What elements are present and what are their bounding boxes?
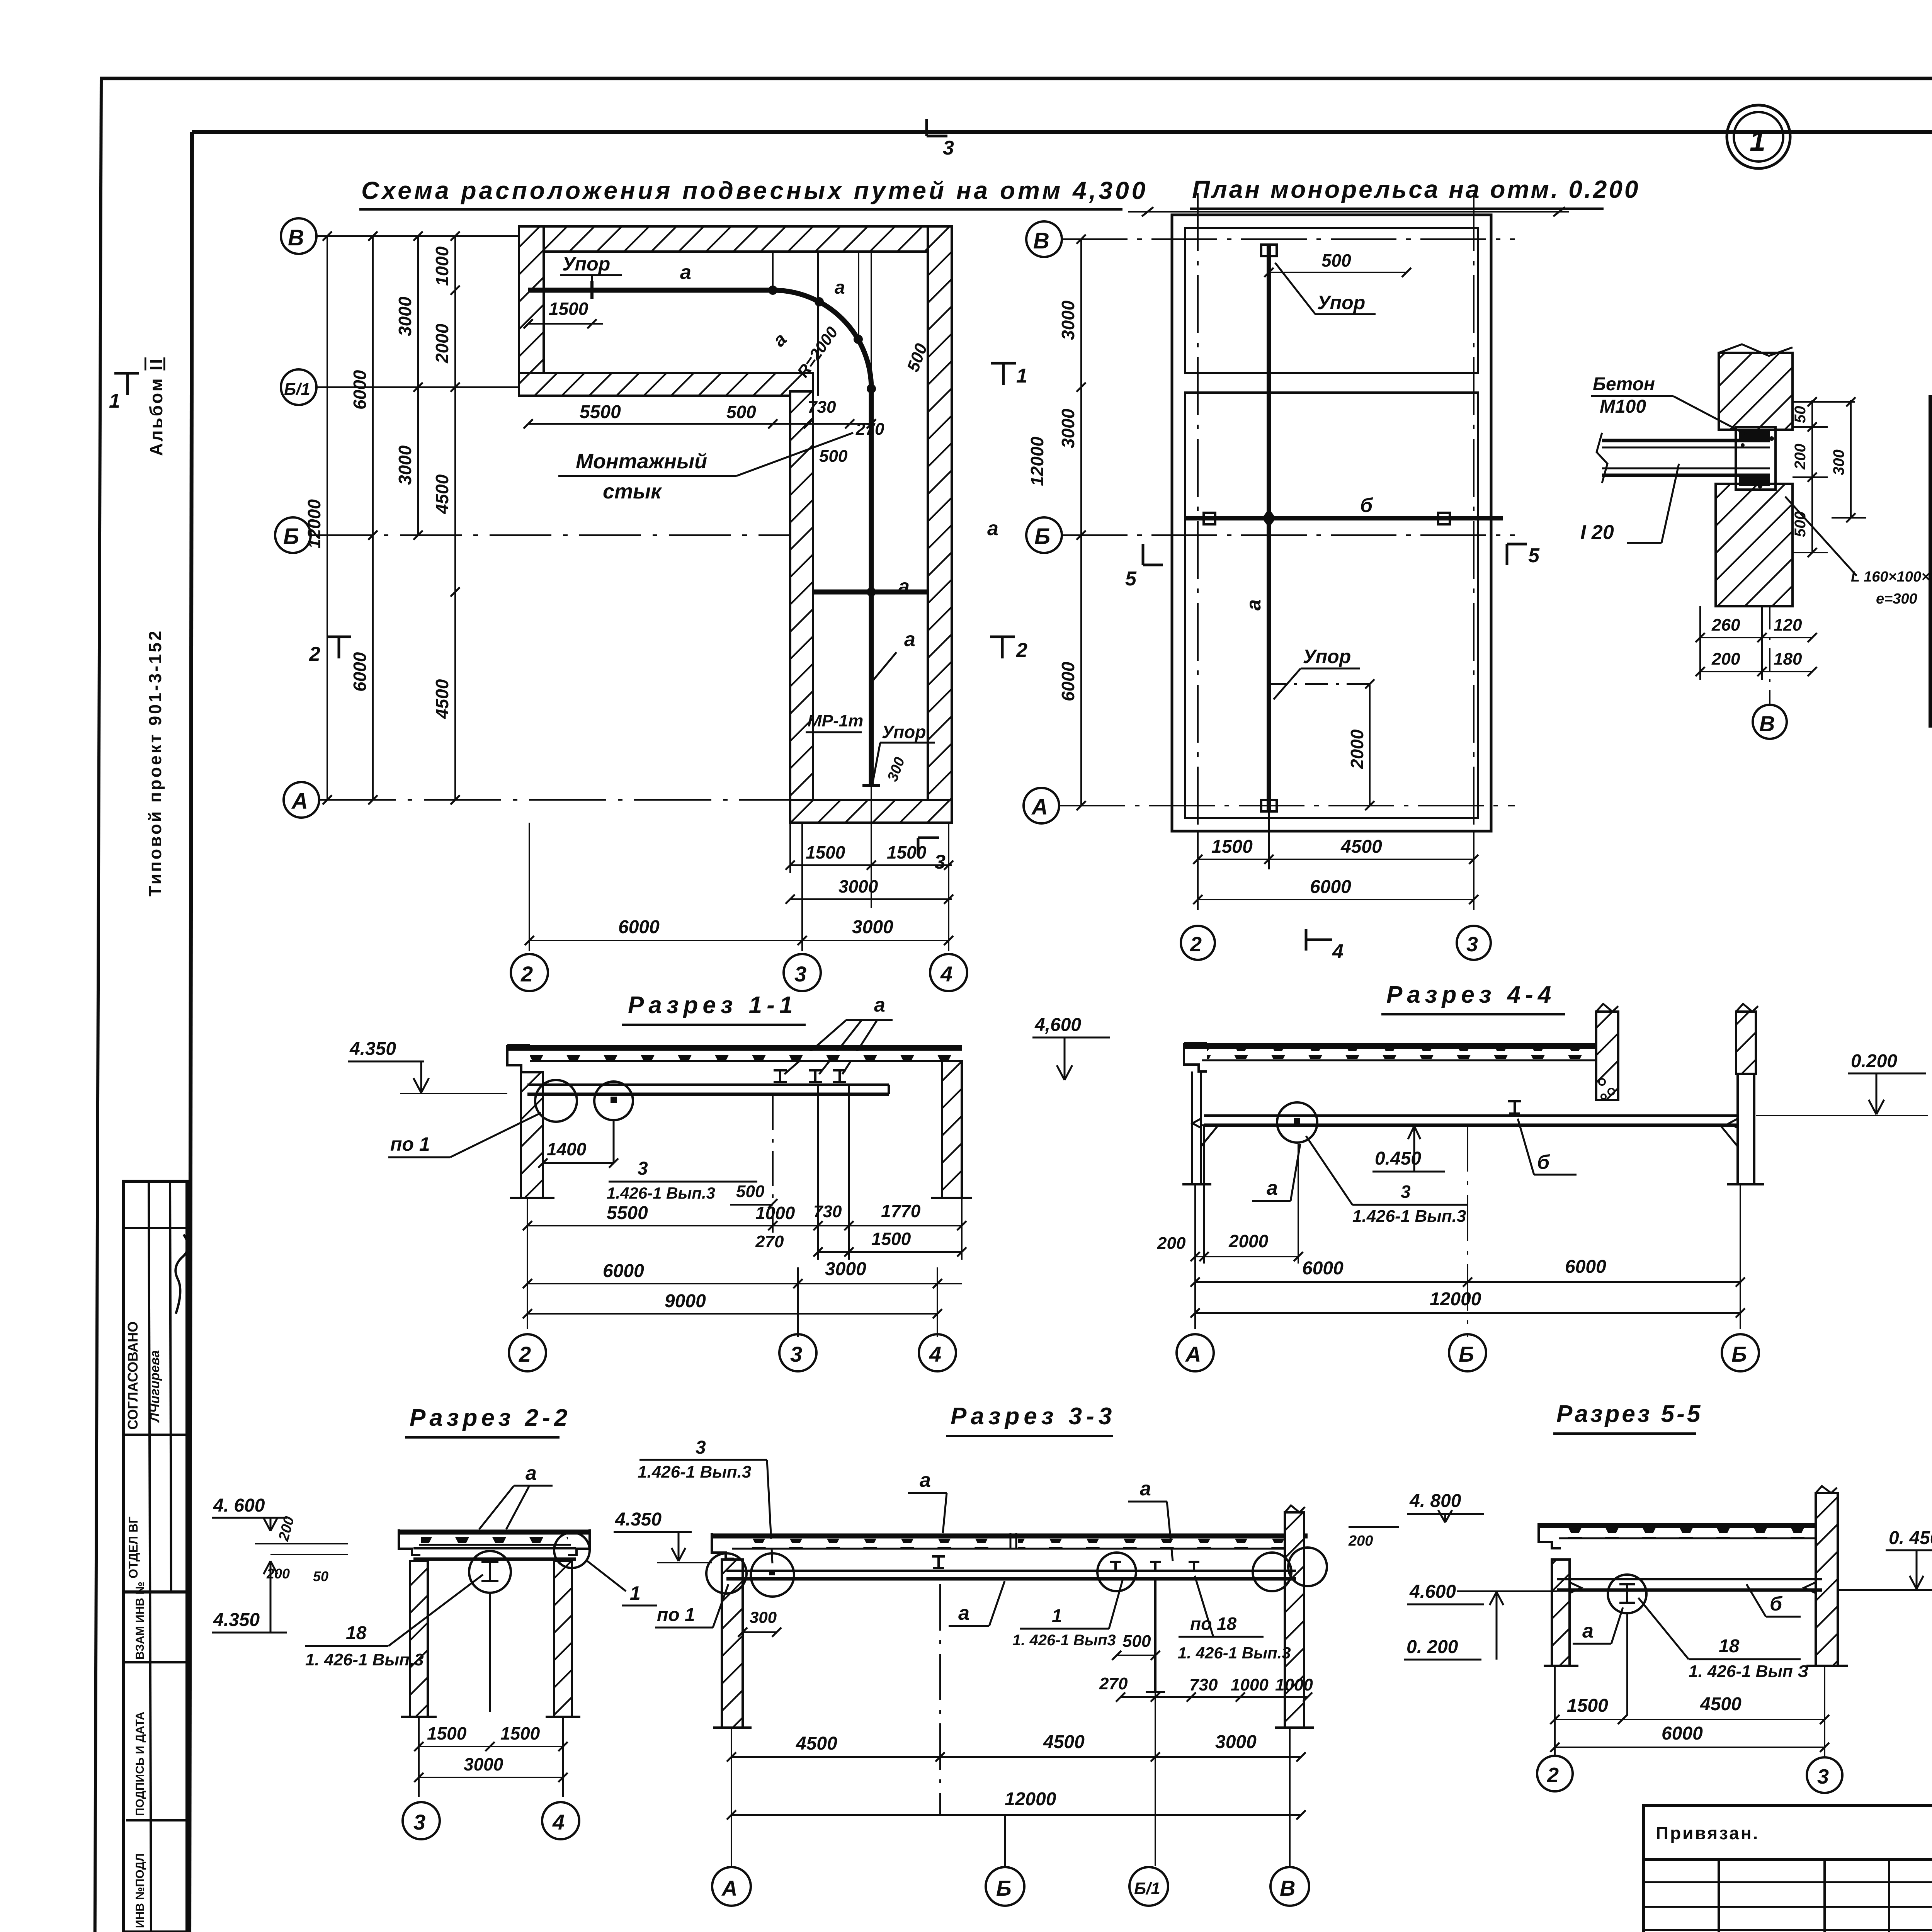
axis vert 3 dashdot xyxy=(1473,193,1475,875)
section mark 2 left xyxy=(327,637,351,658)
svg-text:а: а xyxy=(874,994,885,1016)
svg-text:12000: 12000 xyxy=(1430,1289,1481,1310)
left cap xyxy=(399,1529,420,1555)
axis circle A xyxy=(1024,788,1059,823)
svg-text:4500: 4500 xyxy=(796,1733,837,1754)
dim row below B1 wall xyxy=(528,423,871,425)
svg-text:А: А xyxy=(291,789,308,814)
drawing field border top xyxy=(192,130,1932,134)
left column xyxy=(410,1561,428,1717)
SECTION: plan monorail 0200 xyxy=(1024,175,1640,963)
dim 1500 4500 xyxy=(1555,1719,1825,1720)
svg-text:730: 730 xyxy=(813,1202,842,1221)
section mark 1 left xyxy=(114,373,139,395)
svg-text:730: 730 xyxy=(808,398,836,417)
svg-text:а: а xyxy=(1243,599,1265,611)
svg-text:4500: 4500 xyxy=(432,474,452,514)
dims right v1 xyxy=(1811,400,1813,553)
dim row 270 730 1000 1000 xyxy=(1121,1696,1308,1698)
axis line V xyxy=(316,235,952,237)
SECTION: section 4-4 xyxy=(1032,981,1928,1371)
header band bottom xyxy=(1930,539,1932,543)
svg-text:5: 5 xyxy=(1125,568,1137,590)
svg-text:Упор: Упор xyxy=(562,253,610,275)
svg-text:1.426-1 Вып.3: 1.426-1 Вып.3 xyxy=(607,1184,715,1202)
svg-text:1500: 1500 xyxy=(887,842,927,862)
dim 500 top xyxy=(1269,272,1406,273)
dim row 6000 xyxy=(1198,899,1474,900)
svg-text:Разрез 5-5: Разрез 5-5 xyxy=(1556,1401,1702,1427)
svg-text:12000: 12000 xyxy=(1005,1789,1056,1810)
wall bottom upper room xyxy=(519,373,813,396)
svg-text:270: 270 xyxy=(1099,1674,1128,1693)
svg-text:6000: 6000 xyxy=(1058,662,1078,701)
svg-text:4. 600: 4. 600 xyxy=(213,1495,265,1516)
side stamp inner vertical 2 xyxy=(170,1181,171,1592)
roof slab xyxy=(507,1045,962,1051)
svg-text:3000: 3000 xyxy=(852,917,893,937)
svg-text:а: а xyxy=(987,517,998,540)
svg-text:3: 3 xyxy=(1401,1182,1411,1202)
roof slab xyxy=(1184,1043,1599,1049)
svg-text:6000: 6000 xyxy=(1302,1258,1344,1279)
extension line x2222 xyxy=(858,252,859,342)
svg-text:МР-1т: МР-1т xyxy=(808,711,863,730)
roof slab xyxy=(399,1530,590,1535)
beam xyxy=(413,1547,576,1549)
svg-text:Б: Б xyxy=(1459,1342,1474,1366)
wall outer rect xyxy=(1172,215,1491,831)
wall break line top xyxy=(1719,344,1793,356)
svg-text:стык: стык xyxy=(603,480,662,503)
svg-text:б: б xyxy=(1537,1151,1550,1173)
ext lines xyxy=(527,1198,528,1329)
privyazan box xyxy=(1644,1806,1932,1859)
svg-text:Б: Б xyxy=(996,1876,1012,1900)
svg-text:4.350: 4.350 xyxy=(615,1509,662,1530)
svg-text:3: 3 xyxy=(943,137,954,159)
dim row4 9000 xyxy=(527,1313,937,1315)
SECTION: left margin xyxy=(124,357,188,1932)
dim row 1500 1500 xyxy=(790,864,952,866)
svg-text:Упор: Упор xyxy=(1317,292,1365,313)
svg-text:120: 120 xyxy=(1774,616,1802,634)
axis circle 2p xyxy=(1181,926,1215,960)
svg-text:1: 1 xyxy=(1016,365,1027,387)
dim row 200 2000 xyxy=(1195,1256,1298,1257)
svg-text:3: 3 xyxy=(638,1158,648,1179)
SECTION: section 2-2 xyxy=(212,1405,657,1839)
svg-text:300: 300 xyxy=(750,1608,777,1626)
bottom dim row1 xyxy=(1700,637,1812,638)
svg-text:4500: 4500 xyxy=(1340,837,1382,857)
svg-text:Б/1: Б/1 xyxy=(1134,1879,1160,1898)
axis circle B right xyxy=(1722,1334,1759,1371)
svg-text:3000: 3000 xyxy=(1058,408,1078,448)
left corbel xyxy=(1201,1125,1218,1146)
svg-text:2000: 2000 xyxy=(432,323,452,364)
svg-text:270: 270 xyxy=(755,1232,784,1251)
section mark 3 bottom xyxy=(918,838,939,855)
rail stop upor top xyxy=(590,281,594,299)
svg-text:5500: 5500 xyxy=(607,1203,648,1223)
axis line B1 xyxy=(316,386,522,388)
section mark 1 right xyxy=(991,363,1016,385)
svg-text:12000: 12000 xyxy=(304,499,324,549)
right cap xyxy=(568,1529,590,1555)
svg-text:4500: 4500 xyxy=(1700,1694,1742,1714)
svg-text:4: 4 xyxy=(940,962,952,986)
right wall xyxy=(1285,1512,1304,1728)
roof slab xyxy=(1539,1523,1825,1528)
beam xyxy=(726,1570,1296,1572)
wall upper part xyxy=(1719,353,1793,430)
svg-text:6000: 6000 xyxy=(350,652,370,692)
svg-text:1.426-1 Вып.3: 1.426-1 Вып.3 xyxy=(638,1463,751,1481)
dim chain vertical x1082 xyxy=(417,236,419,535)
chain ticks xyxy=(323,231,460,804)
svg-text:4. 800: 4. 800 xyxy=(1409,1491,1461,1511)
beam break mark xyxy=(1597,433,1607,483)
svg-text:План монорельса на отм. 0.2: План монорельса на отм. 0.200 xyxy=(1192,175,1640,203)
svg-text:4.350: 4.350 xyxy=(213,1610,260,1630)
svg-text:1500: 1500 xyxy=(871,1229,911,1249)
svg-text:Альбом II: Альбом II xyxy=(146,357,166,456)
top dim line break xyxy=(1128,211,1569,213)
axis vert 2 dashdot xyxy=(1197,193,1199,875)
SECTION: vedomost table xyxy=(1930,397,1932,726)
axis circle 4 xyxy=(542,1802,579,1839)
left cornice xyxy=(712,1533,734,1559)
upor bracket bottom xyxy=(1261,800,1277,811)
SECTION: plan scheme 4300 xyxy=(109,119,1148,991)
svg-text:3: 3 xyxy=(794,962,806,986)
left column xyxy=(521,1072,543,1198)
svg-text:6000: 6000 xyxy=(603,1261,644,1281)
svg-text:500: 500 xyxy=(736,1182,765,1201)
svg-text:1500: 1500 xyxy=(549,299,588,319)
svg-text:1. 426-1 Вып.3: 1. 426-1 Вып.3 xyxy=(305,1650,424,1669)
beam I20 top flange xyxy=(1602,439,1770,442)
svg-text:18: 18 xyxy=(346,1623,367,1643)
dim row1 5500 1000 730 1770 xyxy=(527,1225,962,1226)
svg-text:2000: 2000 xyxy=(1228,1231,1269,1251)
right wall xyxy=(1816,1493,1838,1666)
extension line x2255 xyxy=(871,252,872,389)
axis circle 2 xyxy=(511,954,548,991)
svg-text:6000: 6000 xyxy=(1662,1723,1703,1744)
svg-text:ПОДПИСЬ И ДАТА: ПОДПИСЬ И ДАТА xyxy=(134,1712,146,1816)
svg-text:3: 3 xyxy=(413,1810,425,1834)
svg-text:1.426-1 Вып.3: 1.426-1 Вып.3 xyxy=(1352,1207,1466,1226)
svg-text:4: 4 xyxy=(929,1342,941,1366)
svg-text:270: 270 xyxy=(855,420,884,439)
svg-text:3000: 3000 xyxy=(395,445,415,485)
svg-text:3: 3 xyxy=(790,1342,802,1366)
svg-text:1500: 1500 xyxy=(427,1723,467,1743)
svg-text:500: 500 xyxy=(1122,1632,1151,1651)
page outer border top xyxy=(100,77,1932,80)
dim 1500 1500 xyxy=(419,1746,563,1747)
section mark 5 right xyxy=(1507,544,1527,565)
suspended beam xyxy=(527,1083,889,1086)
right circle callout 1 xyxy=(554,1532,590,1568)
dim row3 6000 3000 xyxy=(527,1283,962,1284)
right column double xyxy=(1736,1074,1739,1184)
svg-text:2: 2 xyxy=(520,962,533,986)
SECTION: section 3-3 xyxy=(614,1403,1327,1906)
end plate right xyxy=(1438,513,1450,524)
svg-text:а: а xyxy=(898,575,910,598)
wall inner rect lower room xyxy=(1185,393,1478,818)
axis circle B1 xyxy=(281,369,316,405)
svg-text:4500: 4500 xyxy=(432,679,452,719)
svg-text:В: В xyxy=(1280,1876,1295,1900)
axis circle V xyxy=(1026,221,1062,257)
svg-text:е=300: е=300 xyxy=(1876,591,1917,607)
svg-text:ОТДЕЛ ВГ: ОТДЕЛ ВГ xyxy=(126,1517,140,1578)
svg-text:180: 180 xyxy=(1774,650,1802,668)
extension line x2000 xyxy=(772,252,774,290)
svg-text:Монтажный: Монтажный xyxy=(576,450,707,473)
svg-text:4: 4 xyxy=(552,1810,565,1834)
svg-text:1000: 1000 xyxy=(1231,1675,1269,1694)
svg-text:1. 426-1 Вып З: 1. 426-1 Вып З xyxy=(1689,1662,1808,1681)
ext lines xyxy=(1194,1184,1196,1329)
svg-text:12000: 12000 xyxy=(1027,437,1047,486)
svg-text:5500: 5500 xyxy=(580,402,621,422)
svg-text:730: 730 xyxy=(1189,1675,1218,1694)
wall lower part xyxy=(1716,484,1793,606)
axis circle 3 xyxy=(403,1802,440,1839)
svg-text:ИНВ №ПОДЛ: ИНВ №ПОДЛ xyxy=(134,1853,146,1928)
svg-text:1000: 1000 xyxy=(1275,1675,1313,1694)
svg-text:СОГЛАСОВАНО: СОГЛАСОВАНО xyxy=(125,1321,141,1430)
svg-text:6000: 6000 xyxy=(1565,1257,1606,1277)
svg-text:а: а xyxy=(1582,1620,1594,1642)
svg-text:L 160×100×10: L 160×100×10 xyxy=(1851,569,1932,585)
svg-text:2: 2 xyxy=(1016,639,1027,662)
upor bracket top xyxy=(1261,245,1277,256)
right corbel xyxy=(1720,1125,1738,1146)
svg-text:Привязан.: Привязан. xyxy=(1656,1823,1759,1843)
axis circle V detail xyxy=(1769,606,1770,704)
wall inner rect upper room xyxy=(1185,228,1478,373)
dim 2000 vert xyxy=(1369,684,1371,806)
svg-text:1: 1 xyxy=(630,1582,641,1604)
axis circle 3 xyxy=(779,1334,816,1371)
ext lines xyxy=(418,1717,420,1797)
axis circle V xyxy=(1270,1867,1309,1906)
monorail curve R2000 xyxy=(773,290,871,389)
side stamp row line podpis bottom xyxy=(126,1819,187,1821)
svg-text:2: 2 xyxy=(1547,1764,1559,1787)
privyazan grid xyxy=(1644,1859,1932,1932)
svg-text:4.350: 4.350 xyxy=(349,1039,396,1059)
svg-text:3: 3 xyxy=(1817,1765,1829,1788)
svg-text:4: 4 xyxy=(1332,940,1344,963)
ext verticals bottom xyxy=(731,1728,732,1866)
svg-text:а: а xyxy=(958,1602,969,1624)
svg-text:4500: 4500 xyxy=(1043,1732,1085,1752)
dim row 6000 6000 xyxy=(1195,1281,1740,1283)
axis horiz B xyxy=(1062,534,1515,536)
section mark 3 top xyxy=(927,119,947,136)
svg-text:200: 200 xyxy=(1157,1234,1186,1253)
svg-text:А: А xyxy=(721,1876,737,1900)
svg-text:а: а xyxy=(835,277,845,298)
left cornice xyxy=(507,1045,530,1072)
SECTION: title block xyxy=(1644,1692,1932,1932)
axis circle 3 xyxy=(784,954,821,991)
svg-text:а: а xyxy=(1140,1478,1151,1500)
anchor angle bottom xyxy=(1739,475,1770,486)
monorail b symbol on beam xyxy=(1508,1101,1521,1114)
extension line x2117 xyxy=(817,252,819,396)
monorail horizontal a xyxy=(528,288,773,293)
SECTION: section 1-1 xyxy=(348,992,972,1371)
table header underline xyxy=(1930,446,1932,449)
axis circle V xyxy=(281,218,316,254)
svg-text:по 1: по 1 xyxy=(390,1133,430,1155)
axis horiz A xyxy=(1060,805,1515,806)
svg-text:1000: 1000 xyxy=(432,246,452,286)
svg-text:3000: 3000 xyxy=(825,1259,866,1279)
grout pocket concrete M100 xyxy=(1736,427,1776,490)
monorail I at B xyxy=(932,1556,945,1568)
svg-text:0. 200: 0. 200 xyxy=(1406,1637,1458,1657)
svg-text:Разрез 3-3: Разрез 3-3 xyxy=(951,1403,1116,1430)
axis circle B xyxy=(275,517,311,553)
left column xyxy=(722,1560,743,1728)
svg-text:1770: 1770 xyxy=(881,1201,921,1221)
wall inner vertical xyxy=(790,391,813,823)
svg-text:3000: 3000 xyxy=(1215,1732,1257,1752)
detail circle I xyxy=(1608,1575,1646,1613)
svg-text:1: 1 xyxy=(1052,1606,1062,1626)
joint dot center xyxy=(1262,509,1276,528)
axis circle 3p xyxy=(1457,926,1491,960)
svg-text:А: А xyxy=(1185,1342,1201,1366)
svg-text:500: 500 xyxy=(1792,511,1809,537)
weld mark right xyxy=(1729,1119,1738,1128)
dim 6000 xyxy=(1555,1747,1825,1748)
svg-text:2: 2 xyxy=(309,643,320,665)
monorail row po18 xyxy=(1110,1562,1199,1571)
svg-text:а: а xyxy=(680,261,691,284)
axis line B xyxy=(310,534,790,536)
roof slab xyxy=(712,1534,1308,1539)
svg-text:500: 500 xyxy=(1321,250,1351,270)
wall bottom leg xyxy=(790,800,952,823)
joint dots xyxy=(768,286,876,597)
svg-text:Б: Б xyxy=(1731,1342,1747,1366)
svg-text:500: 500 xyxy=(726,402,756,422)
svg-text:200: 200 xyxy=(1348,1533,1373,1549)
section mark 4 xyxy=(1306,929,1332,951)
axis circle 4 xyxy=(930,954,967,991)
side stamp row line vzam bottom xyxy=(124,1661,187,1663)
small level dims xyxy=(255,1543,348,1544)
svg-text:4.600: 4.600 xyxy=(1409,1582,1456,1602)
drawing field border left xyxy=(189,132,192,1932)
svg-text:200: 200 xyxy=(1792,444,1809,470)
axis circle B xyxy=(986,1867,1024,1906)
dim row 12000 xyxy=(1195,1312,1740,1314)
right column xyxy=(554,1561,572,1717)
bottom ext lines xyxy=(1197,831,1199,910)
svg-text:3000: 3000 xyxy=(838,876,878,896)
svg-text:0.200: 0.200 xyxy=(1851,1051,1897,1071)
svg-text:М100: М100 xyxy=(1600,396,1646,417)
svg-text:Б: Б xyxy=(1034,524,1050,549)
svg-text:Упор: Упор xyxy=(1303,646,1351,667)
beam 0200 xyxy=(1204,1114,1738,1117)
svg-text:3: 3 xyxy=(934,851,946,873)
svg-text:3: 3 xyxy=(1466,933,1478,956)
hanger B1 xyxy=(1154,1579,1156,1692)
svg-text:б: б xyxy=(1360,494,1373,517)
svg-text:4,600: 4,600 xyxy=(1034,1015,1081,1035)
page outer border left xyxy=(95,78,101,1932)
dim chain vertical x1178 xyxy=(454,236,456,800)
svg-text:6000: 6000 xyxy=(350,370,370,410)
axis circle A xyxy=(712,1867,751,1906)
detail mark circle 1 xyxy=(1727,105,1790,168)
dim row 4500 4500 3000 xyxy=(731,1756,1301,1758)
svg-text:а: а xyxy=(1267,1177,1278,1199)
svg-text:50: 50 xyxy=(313,1568,328,1584)
axis circle 4 xyxy=(919,1334,956,1371)
rail stop upor bottom xyxy=(862,784,880,787)
svg-text:I 20: I 20 xyxy=(1580,521,1614,544)
svg-text:Разрез 1-1: Разрез 1-1 xyxy=(628,992,797,1019)
side stamp row line top xyxy=(124,1227,187,1229)
beam I20 bottom flange xyxy=(1602,468,1770,469)
section mark 2 right xyxy=(990,637,1015,658)
left cornice xyxy=(1539,1523,1561,1548)
svg-text:3: 3 xyxy=(696,1437,706,1458)
svg-text:9000: 9000 xyxy=(665,1291,706,1311)
end plate left xyxy=(1204,513,1215,524)
svg-text:2: 2 xyxy=(1190,933,1202,956)
svg-text:ЛЧигирева: ЛЧигирева xyxy=(148,1350,162,1423)
svg-text:0. 450: 0. 450 xyxy=(1889,1528,1932,1548)
svg-text:300: 300 xyxy=(1830,449,1847,475)
detail circle I xyxy=(469,1551,511,1593)
wall right xyxy=(928,226,952,823)
weld mark left xyxy=(1192,1119,1201,1128)
dim row2 270 1500 xyxy=(818,1251,962,1253)
left column xyxy=(1552,1560,1570,1666)
svg-text:1500: 1500 xyxy=(1211,837,1253,857)
svg-text:А: А xyxy=(1031,794,1048,820)
monorail vertical xyxy=(869,389,874,786)
left column double xyxy=(1191,1071,1193,1184)
section mark 5 left xyxy=(1143,544,1163,565)
table outer xyxy=(1930,397,1932,726)
svg-text:Типовой проект 901-3-152: Типовой проект 901-3-152 xyxy=(145,629,165,896)
svg-text:1. 426-1 Вып.3: 1. 426-1 Вып.3 xyxy=(1178,1644,1291,1662)
svg-text:3000: 3000 xyxy=(1058,300,1078,340)
dim chain vertical x847 xyxy=(327,236,328,800)
weld corbels xyxy=(1570,1582,1581,1593)
svg-text:В: В xyxy=(288,225,304,250)
wall left upper xyxy=(519,226,544,396)
svg-text:В: В xyxy=(1759,711,1775,736)
right wall hatched upper xyxy=(1736,1012,1756,1074)
svg-text:В: В xyxy=(1033,228,1049,253)
